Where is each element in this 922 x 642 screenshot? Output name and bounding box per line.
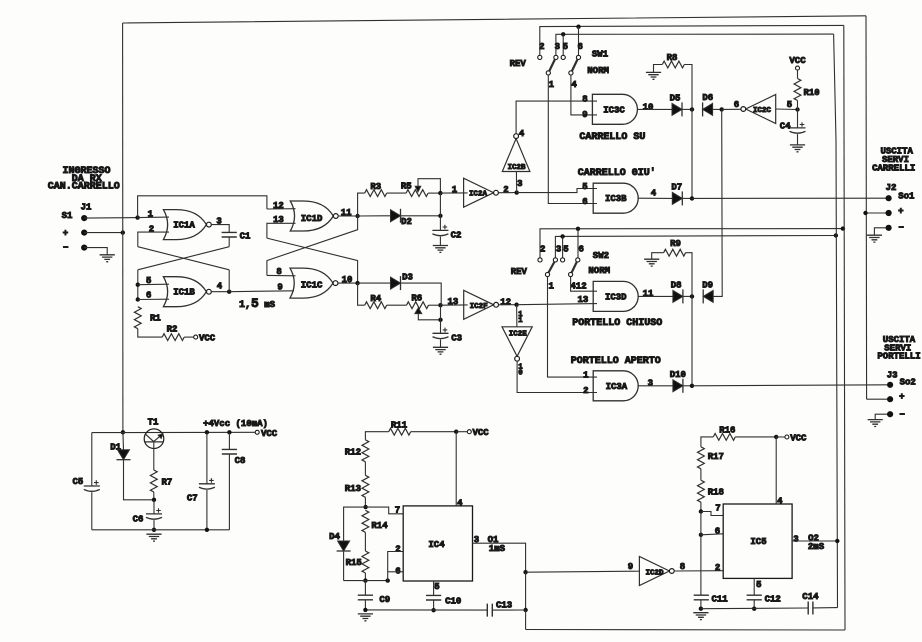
svg-text:5: 5 bbox=[563, 244, 568, 254]
wire IC2A out to IC3B pin5 bbox=[517, 189, 597, 193]
junction O1 lower to vertical bbox=[841, 226, 845, 230]
junction C7 rail bbox=[205, 430, 209, 434]
wire SW1 pole1 to IC3B pin6 bbox=[548, 75, 597, 204]
terminal J1 S1 bbox=[81, 215, 87, 221]
junction D5 node bbox=[690, 107, 694, 111]
svg-text:IC3C: IC3C bbox=[603, 105, 625, 115]
nor-gate IC1A bbox=[163, 210, 211, 240]
svg-text:7: 7 bbox=[715, 504, 720, 514]
terminal J3 So2 bbox=[887, 382, 893, 388]
wire B-out vertical to cross bbox=[228, 270, 230, 292]
svg-text:REV: REV bbox=[510, 59, 527, 69]
junction VCC node IC5 bbox=[774, 435, 778, 439]
wire pin7 IC5 bbox=[701, 512, 723, 516]
svg-text:J3: J3 bbox=[887, 371, 898, 381]
ground C4 bbox=[790, 145, 805, 152]
ground power bbox=[146, 534, 161, 541]
svg-text:2: 2 bbox=[540, 244, 545, 254]
junction SW2 contact5 line bbox=[560, 234, 564, 238]
svg-text:J2: J2 bbox=[886, 183, 897, 193]
wire R18 to node bbox=[700, 502, 702, 511]
diode D9 bbox=[702, 280, 713, 303]
junction J2 + supply bbox=[863, 211, 867, 215]
svg-text:C6: C6 bbox=[133, 514, 144, 524]
svg-text:R8: R8 bbox=[667, 53, 678, 63]
svg-text:R13: R13 bbox=[345, 484, 361, 494]
svg-text:NORM: NORM bbox=[587, 66, 609, 76]
junction D10 node bbox=[690, 384, 694, 388]
svg-text:S1: S1 bbox=[62, 211, 73, 221]
terminal J3 - bbox=[887, 411, 893, 417]
svg-text:C11: C11 bbox=[711, 595, 728, 605]
wire D4 bottom to node bbox=[344, 580, 366, 582]
resistor R12 bbox=[345, 440, 369, 462]
trimmer R6 bbox=[407, 294, 441, 320]
svg-text:D8: D8 bbox=[671, 280, 682, 290]
wire D6 to node bbox=[713, 108, 722, 110]
wire R9 right down to D8 node bbox=[686, 253, 692, 297]
svg-text:D10: D10 bbox=[670, 370, 686, 380]
wire D5 node to D7 node bbox=[691, 109, 693, 198]
svg-text:2: 2 bbox=[503, 185, 508, 195]
wire R8 right down to D5 node bbox=[684, 65, 692, 110]
wire C7 bottom bbox=[206, 490, 208, 530]
wire O1 line right vertical bbox=[844, 25, 845, 630]
vcc symbol after R2 bbox=[194, 334, 216, 344]
svg-text:1: 1 bbox=[583, 371, 589, 381]
wire IC1B pin5 bbox=[138, 283, 169, 286]
svg-text:R6: R6 bbox=[411, 294, 422, 304]
svg-text:412: 412 bbox=[570, 282, 586, 292]
capacitor C13 bbox=[487, 600, 512, 616]
and-gate IC3B bbox=[593, 183, 638, 213]
svg-text:PORTELLO APERTO: PORTELLO APERTO bbox=[571, 356, 661, 367]
terminal J2 - bbox=[886, 225, 892, 231]
wire O1 line top (SW contacts 2,6) bbox=[540, 25, 844, 55]
wire supply vertical left bbox=[122, 23, 124, 432]
svg-text:R15: R15 bbox=[346, 558, 362, 568]
wire IC1B pin6 bbox=[138, 298, 169, 300]
svg-text:VCC: VCC bbox=[261, 429, 278, 439]
capacitor C11 bbox=[694, 595, 729, 605]
wire supply down to rail bbox=[122, 431, 124, 433]
resistor R1 bbox=[134, 307, 161, 329]
svg-text:D7: D7 bbox=[671, 183, 682, 193]
svg-text:C10: C10 bbox=[445, 596, 461, 606]
switch SW2 blade 3-1 bbox=[549, 262, 555, 273]
svg-text:R12: R12 bbox=[345, 448, 361, 458]
svg-text:IC2D: IC2D bbox=[645, 569, 664, 577]
svg-text:+: + bbox=[63, 228, 68, 238]
wire R17 to R18 bbox=[700, 469, 702, 480]
switch SW2 contacts bbox=[538, 258, 580, 277]
wire J1 S1 to node A bbox=[84, 217, 137, 220]
wire pin2 IC4 bbox=[388, 552, 404, 581]
wire R16 left corner bbox=[701, 437, 713, 447]
svg-text:IC3A: IC3A bbox=[606, 382, 628, 392]
svg-text:R4: R4 bbox=[370, 294, 381, 304]
junction SW1 contact5 line bbox=[561, 32, 565, 36]
ground R9 bbox=[644, 259, 659, 266]
svg-text:2: 2 bbox=[715, 563, 720, 573]
wire IC2A out up to IC2B bbox=[515, 172, 517, 193]
wire R3 to R5 bbox=[387, 192, 406, 194]
svg-text:C5: C5 bbox=[72, 477, 83, 487]
svg-text:5: 5 bbox=[787, 100, 792, 110]
switch SW1 contacts bbox=[538, 55, 581, 75]
wire pin4 IC4 bbox=[455, 432, 457, 506]
wire node to pins 2 6 bbox=[365, 580, 387, 582]
svg-text:3: 3 bbox=[648, 378, 653, 388]
wire So1 line bbox=[692, 197, 889, 199]
wire O2 line lower (SW2 contacts 3,5) bbox=[555, 236, 836, 258]
wire D8 node down to D10 node bbox=[691, 296, 693, 385]
wire C1 bottom bbox=[228, 237, 230, 247]
svg-text:D2: D2 bbox=[401, 217, 412, 227]
terminal J3 + bbox=[887, 396, 893, 402]
svg-text:C1: C1 bbox=[240, 231, 251, 241]
svg-text:IC4: IC4 bbox=[428, 540, 445, 550]
wire bottom power rail bbox=[92, 529, 230, 531]
svg-text:IC2C: IC2C bbox=[753, 107, 772, 115]
svg-text:CAN.CARRELLO: CAN.CARRELLO bbox=[48, 182, 120, 193]
wire node C to IC2F bbox=[441, 304, 468, 306]
svg-text:D6: D6 bbox=[702, 93, 713, 103]
svg-text:C12: C12 bbox=[765, 595, 781, 605]
svg-text:IC1C: IC1C bbox=[301, 280, 323, 290]
diode D10 bbox=[670, 370, 686, 393]
switch SW2 blade 6-4 bbox=[572, 262, 577, 273]
wire node to C6 bbox=[153, 500, 155, 514]
wire SW1 pole4 to IC3C pin9 bbox=[571, 75, 597, 115]
wire D1 to base node bbox=[124, 460, 155, 500]
wire D3 to node C bbox=[401, 283, 442, 305]
svg-text:C2: C2 bbox=[451, 230, 462, 240]
svg-text:9: 9 bbox=[628, 562, 633, 572]
junction + supply bbox=[121, 230, 125, 234]
wire R1 to R2 bbox=[138, 329, 162, 337]
resistor R4 bbox=[365, 294, 387, 309]
wire IC2B out to IC3C pin8 bbox=[516, 101, 597, 134]
wire D10 to node bbox=[683, 385, 692, 387]
junction pins26 bottom bbox=[386, 578, 390, 582]
svg-text:1: 1 bbox=[518, 317, 523, 325]
svg-text:REV: REV bbox=[511, 267, 528, 277]
junction IC2F out bbox=[514, 303, 518, 307]
svg-text:6: 6 bbox=[582, 197, 587, 207]
nor-gate IC1B bbox=[163, 277, 211, 307]
wire IC1C out bbox=[338, 282, 358, 284]
svg-text:C7: C7 bbox=[187, 494, 198, 504]
svg-text:IC2A: IC2A bbox=[469, 191, 488, 199]
svg-text:+: + bbox=[898, 206, 903, 216]
wire pin5 IC4 to C10 bbox=[433, 581, 435, 595]
ground J1 bbox=[100, 255, 115, 262]
svg-text:4: 4 bbox=[519, 129, 525, 139]
wire R4 to R6 bbox=[387, 304, 407, 306]
svg-text:1: 1 bbox=[452, 185, 458, 195]
diode D1 bbox=[117, 450, 131, 460]
junction D7 node bbox=[690, 196, 694, 200]
capacitor C8 bbox=[222, 449, 246, 465]
svg-text:1: 1 bbox=[548, 282, 554, 292]
junction IC1B pin6 bbox=[136, 297, 140, 301]
and-gate IC3D bbox=[593, 281, 638, 311]
wire J1 + to supply line bbox=[84, 232, 123, 234]
wire IC1A pin1 bbox=[138, 216, 169, 219]
svg-text:R14: R14 bbox=[371, 521, 388, 531]
wire supply top horizontal bbox=[123, 16, 866, 23]
resistor R3 bbox=[365, 182, 387, 197]
svg-text:4: 4 bbox=[777, 496, 783, 506]
wire cross A-out to B-in bbox=[138, 247, 229, 270]
wire C13 to O1 vert bbox=[492, 609, 525, 611]
vcc symbol IC5 bbox=[785, 434, 807, 444]
resistor R11 bbox=[389, 421, 411, 436]
svg-text:4: 4 bbox=[217, 282, 223, 292]
wire R5 to node B bbox=[428, 192, 440, 194]
label INGRESSO DA RX CAN.CARRELLO bbox=[48, 166, 120, 192]
wire D4 to bottom bbox=[343, 551, 345, 581]
ground R8 bbox=[646, 72, 661, 79]
svg-text:R9: R9 bbox=[670, 239, 681, 249]
wire power rail bbox=[92, 431, 255, 433]
wire IC2E out to IC3A pin2 bbox=[517, 361, 597, 392]
svg-text:D3: D3 bbox=[402, 273, 413, 283]
resistor R17 bbox=[698, 447, 724, 469]
capacitor C10 bbox=[426, 595, 461, 606]
junction D8 node bbox=[690, 294, 694, 298]
ground C2 bbox=[433, 246, 448, 253]
diode D8 bbox=[671, 280, 683, 303]
wire C9 to gnd row bbox=[364, 600, 366, 610]
wire C10 to gnd row bbox=[433, 600, 435, 610]
resistor R7 bbox=[150, 470, 172, 492]
wire C3 to ground bbox=[440, 340, 442, 348]
junction IC1B out bbox=[227, 290, 231, 294]
switch SW1 blade 3-1 bbox=[549, 59, 555, 71]
svg-text:VCC: VCC bbox=[790, 434, 807, 444]
wire IC2F out bbox=[498, 304, 516, 306]
wire O1 line lower (SW2 contacts 2,6) bbox=[540, 229, 843, 258]
wire IC2F out to IC3D pin13 bbox=[517, 304, 597, 305]
capacitor C5 bbox=[72, 477, 99, 491]
nor-gate IC1D bbox=[290, 201, 338, 231]
svg-text:C8: C8 bbox=[235, 456, 246, 466]
ic IC4 box bbox=[403, 506, 472, 581]
wire D5 to node bbox=[682, 108, 692, 110]
junction O2 lower to vertical bbox=[834, 233, 838, 237]
inverter IC2A bbox=[464, 178, 499, 207]
pin 10 IC2E bbox=[518, 364, 523, 378]
capacitor C6 bbox=[133, 508, 162, 524]
wire rail to D1 bbox=[122, 432, 125, 449]
wire R12 to R13 bbox=[364, 462, 366, 476]
ground J2 bbox=[867, 235, 882, 242]
junction C13 right bbox=[523, 608, 527, 612]
svg-text:R1: R1 bbox=[150, 313, 161, 323]
terminal J2 + bbox=[886, 210, 892, 216]
wire R13 to node bbox=[364, 497, 366, 507]
wire supply right vertical bbox=[865, 16, 868, 399]
wire D7 to node bbox=[682, 197, 692, 199]
wire C8 top bbox=[228, 432, 230, 449]
wire C6 to bottom rail bbox=[153, 520, 155, 530]
wire pin4 IC5 bbox=[775, 437, 777, 504]
wire R15 to bottom node bbox=[364, 573, 366, 581]
svg-text:−: − bbox=[63, 243, 68, 253]
junction C2 node bbox=[438, 214, 442, 218]
wire cross D-in to C-out bbox=[267, 238, 358, 283]
wire R16 to VCC node bbox=[735, 436, 776, 438]
wire D8 to node bbox=[683, 295, 692, 297]
wire IC1C-out down to R4 row bbox=[358, 283, 365, 305]
wire IC3B out bbox=[638, 197, 672, 199]
ic IC5 box bbox=[723, 504, 792, 578]
svg-text:3: 3 bbox=[556, 244, 561, 254]
svg-text:4: 4 bbox=[651, 189, 657, 199]
wire C2 to ground bbox=[439, 237, 441, 246]
junction IC1B pin5 bbox=[136, 283, 140, 287]
wire O1 down to C13 bbox=[525, 572, 527, 610]
inverter IC2B bbox=[502, 134, 530, 172]
svg-text:CARRELLO SU: CARRELLO SU bbox=[579, 132, 645, 143]
junction C10 bottom bbox=[431, 608, 435, 612]
wire D3 row bbox=[358, 282, 391, 284]
vcc symbol IC4 bbox=[467, 428, 489, 438]
diode D6 bbox=[702, 93, 713, 116]
wire SW1 contact5 up bbox=[562, 34, 564, 55]
svg-text:10: 10 bbox=[643, 102, 654, 112]
svg-text:CARRELLO GIU': CARRELLO GIU' bbox=[578, 167, 656, 179]
resistor R15 bbox=[346, 551, 369, 573]
svg-text:2: 2 bbox=[149, 224, 154, 234]
wire SW2 pole4 to IC3D pin12 bbox=[571, 277, 597, 292]
svg-text:3: 3 bbox=[793, 535, 798, 545]
diode D4 bbox=[337, 541, 351, 551]
wire IC3C out bbox=[637, 108, 672, 110]
svg-text:11: 11 bbox=[643, 289, 654, 299]
junction R18 node bbox=[699, 509, 703, 513]
wire IC5 out to O2 line bbox=[792, 540, 837, 542]
junction node A pin1 bbox=[135, 215, 139, 219]
svg-text:VCC: VCC bbox=[199, 334, 216, 344]
wire J3 + from supply bbox=[867, 398, 891, 400]
wire IC2D out to IC5 pin2 bbox=[674, 570, 723, 572]
svg-text:1mS: 1mS bbox=[489, 544, 506, 554]
resistor R2 bbox=[162, 324, 184, 340]
svg-text:IC1A: IC1A bbox=[173, 221, 195, 231]
wire SW2 pole1 to IC3A pin1 bbox=[548, 277, 598, 378]
junction node B bbox=[438, 191, 442, 195]
junction node C bbox=[438, 303, 442, 307]
wire node to pin7 IC4 bbox=[366, 507, 404, 514]
svg-text:D9: D9 bbox=[702, 280, 713, 290]
wire node 5 down to C4 bbox=[797, 110, 799, 128]
wire C7 top bbox=[206, 432, 208, 484]
transistor T1 bbox=[144, 429, 164, 470]
wire R15 node to C9 bbox=[364, 581, 366, 596]
wire IC1D pin13 from cross bbox=[267, 223, 296, 238]
junction VCC node IC4 bbox=[454, 430, 458, 434]
wire VCC to R10 bbox=[797, 70, 799, 78]
junction R6 wiper bbox=[438, 318, 442, 322]
wire IC4 out bbox=[473, 543, 526, 572]
junction O1 node bbox=[523, 570, 527, 574]
svg-text:C4: C4 bbox=[780, 121, 791, 131]
capacitor C2 bbox=[432, 225, 461, 241]
wire O2 line top (SW contacts 3,5) bbox=[556, 34, 834, 55]
svg-text:4: 4 bbox=[457, 498, 463, 508]
wire IC2C in from node 5 bbox=[776, 108, 798, 111]
svg-text:NORM: NORM bbox=[588, 266, 610, 276]
wire J1 - to ground bbox=[84, 248, 107, 255]
svg-text:R18: R18 bbox=[708, 487, 724, 497]
wire C8 bottom bbox=[228, 454, 230, 530]
svg-text:IC2B: IC2B bbox=[507, 164, 526, 172]
capacitor C7 bbox=[187, 478, 215, 504]
wire C11 to gnd row bbox=[700, 600, 702, 609]
wire D6 node down to D9 bbox=[713, 109, 722, 296]
svg-text:PORTELLI: PORTELLI bbox=[877, 352, 920, 362]
svg-text:8: 8 bbox=[582, 94, 587, 104]
svg-text:C9: C9 bbox=[379, 595, 390, 605]
svg-text:5: 5 bbox=[756, 580, 761, 590]
junction IC2A out bbox=[515, 190, 519, 194]
capacitor C9 bbox=[358, 595, 390, 605]
wire J2 + from supply bbox=[866, 212, 889, 214]
wire R9 left to ground bbox=[652, 253, 664, 260]
wire R6 to node C bbox=[429, 304, 441, 306]
resistor R9 bbox=[664, 239, 686, 256]
wire pin5 IC5 to C12 bbox=[753, 578, 755, 595]
svg-text:PORTELLO CHIUSO: PORTELLO CHIUSO bbox=[572, 318, 662, 329]
wire IC1D out bbox=[338, 215, 357, 217]
ground J3 bbox=[868, 420, 883, 427]
inverter IC2C bbox=[741, 95, 776, 124]
wire J3 - to ground bbox=[875, 414, 890, 419]
wire IC3A out bbox=[638, 385, 673, 387]
wire VCC node to circle bbox=[456, 431, 467, 433]
junction R13 R14 node bbox=[363, 505, 367, 509]
wire C11 C12 gnd row bbox=[701, 607, 808, 610]
wire node B down to C2 node bbox=[439, 193, 441, 216]
resistor R8 bbox=[662, 53, 684, 68]
svg-text:D5: D5 bbox=[670, 94, 681, 104]
wire SW1 contact6 up bbox=[578, 27, 580, 56]
wire O2 line right vertical bbox=[834, 34, 838, 608]
svg-text:IC3D: IC3D bbox=[605, 293, 627, 303]
wire cross D-out to C-in bbox=[267, 216, 358, 275]
wire O2 line bottom to C14 bbox=[813, 607, 838, 609]
svg-text:R2: R2 bbox=[167, 324, 178, 334]
svg-text:2: 2 bbox=[583, 386, 588, 396]
wire C12 to gnd row bbox=[753, 600, 755, 609]
label USCITA SERVI PORTELLI bbox=[877, 335, 920, 362]
resistor R16 bbox=[713, 425, 735, 440]
svg-text:R3: R3 bbox=[370, 182, 381, 192]
svg-text:R5: R5 bbox=[401, 182, 412, 192]
svg-text:13: 13 bbox=[447, 297, 458, 307]
svg-text:IC5: IC5 bbox=[750, 537, 766, 547]
junction R7 C6 node bbox=[152, 498, 156, 502]
ground C3 bbox=[433, 347, 448, 354]
wire bottom rail bbox=[526, 629, 845, 632]
svg-text:IC1B: IC1B bbox=[173, 288, 195, 298]
wire IC1C pin8 bbox=[267, 274, 296, 276]
label USCITA SERVI CARRELLI bbox=[872, 146, 915, 173]
junction IC1D out bbox=[355, 214, 359, 218]
